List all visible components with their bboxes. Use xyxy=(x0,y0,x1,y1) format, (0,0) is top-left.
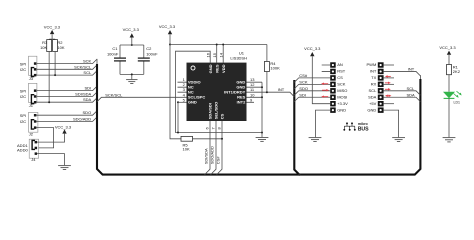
power flag VCC_3.3 left header xyxy=(304,46,321,56)
wire RX stub xyxy=(384,82,394,85)
resistor R5 xyxy=(181,136,223,151)
svg-text:CS: CS xyxy=(220,113,225,119)
svg-text:SDI/SDA: SDI/SDA xyxy=(75,91,91,96)
wire SCL to bus xyxy=(384,86,421,95)
svg-text:SDI: SDI xyxy=(85,86,92,91)
svg-text:VCC_3.3: VCC_3.3 xyxy=(123,27,140,32)
jumper J3 SPI/I2C xyxy=(20,56,37,81)
svg-text:SDO: SDO xyxy=(83,110,92,115)
wire J4 bottom to GND xyxy=(37,154,64,166)
svg-text:10K: 10K xyxy=(57,45,64,50)
jumper J2 SPI/I2C xyxy=(20,112,38,136)
svg-text:2K2: 2K2 xyxy=(453,69,461,74)
svg-text:AN: AN xyxy=(337,62,343,67)
resistor R3 xyxy=(40,40,52,52)
wire SDA xyxy=(37,97,97,103)
svg-text:mikro: mikro xyxy=(358,122,369,126)
svg-text:SPI: SPI xyxy=(20,89,26,94)
wire +3.3V xyxy=(312,56,330,103)
resistor R4 xyxy=(264,45,280,93)
wire INT from IC xyxy=(247,87,295,97)
power flag VCC_3.3 VDD rail xyxy=(159,24,176,45)
svg-text:SCK/SCL: SCK/SCL xyxy=(74,64,92,69)
jumper J1 SPI/I2C xyxy=(20,83,37,108)
wire SCK xyxy=(37,59,97,64)
bus main xyxy=(97,64,420,175)
svg-text:SPI: SPI xyxy=(20,113,26,118)
wire caps rails xyxy=(120,45,144,79)
svg-text:GND: GND xyxy=(367,107,376,112)
svg-text:SCL: SCL xyxy=(83,70,92,75)
svg-text:I2C: I2C xyxy=(20,67,26,72)
svg-text:16: 16 xyxy=(206,52,211,57)
svg-text:I2C: I2C xyxy=(20,119,26,124)
svg-text:SDA: SDA xyxy=(368,94,377,99)
wire TX stub xyxy=(384,75,394,78)
svg-text:VCC_3.3: VCC_3.3 xyxy=(55,124,72,129)
wire CS# xyxy=(294,73,330,82)
ground LED xyxy=(443,138,456,142)
svg-text:10K: 10K xyxy=(40,45,47,50)
ground J4 xyxy=(58,166,71,170)
wire SCK/SCL xyxy=(37,64,97,69)
svg-text:SDA/SDI: SDA/SDI xyxy=(208,103,213,119)
left pin stubs 1-5 xyxy=(178,82,187,92)
svg-text:PWM: PWM xyxy=(367,62,377,67)
wire SDA to bus xyxy=(384,92,421,101)
wire VDD to R5 xyxy=(170,45,181,139)
wire SDI/SDA xyxy=(37,91,97,96)
ground IC xyxy=(256,132,269,142)
body xyxy=(187,63,247,121)
wire left header GND xyxy=(316,110,331,137)
wire R2 to SCL xyxy=(54,52,56,76)
wire VDD rail xyxy=(170,45,267,63)
svg-text:14: 14 xyxy=(219,52,224,57)
svg-text:BUS: BUS xyxy=(358,127,369,133)
svg-text:VCC_3.3: VCC_3.3 xyxy=(44,24,61,29)
svg-text:+5V: +5V xyxy=(369,101,377,106)
svg-text:CS: CS xyxy=(337,75,343,80)
svg-text:SPI: SPI xyxy=(20,61,26,66)
power flag VCC_3.3 pull-ups xyxy=(44,24,61,39)
wire SCL xyxy=(37,70,97,76)
svg-text:SDO/ADD: SDO/ADD xyxy=(73,116,91,121)
svg-text:GND: GND xyxy=(208,64,213,73)
svg-text:100nF: 100nF xyxy=(146,51,158,56)
svg-text:SCK: SCK xyxy=(337,82,346,87)
svg-text:SCL: SCL xyxy=(369,88,378,93)
svg-text:SDA: SDA xyxy=(83,97,92,102)
svg-text:VCC_3.3: VCC_3.3 xyxy=(159,24,176,29)
svg-text:SCK: SCK xyxy=(299,80,308,85)
wire SCK/SCL to IC xyxy=(97,92,187,101)
svg-text:SEL/SDO: SEL/SDO xyxy=(214,102,219,120)
wire right header GND xyxy=(384,110,399,137)
svg-text:VCC_3.3: VCC_3.3 xyxy=(304,46,321,51)
svg-text:SDO: SDO xyxy=(299,86,308,91)
power flag VCC_3.3 J4 xyxy=(55,124,72,133)
bottom pin stubs 6-8 xyxy=(205,121,222,175)
svg-text:MISO: MISO xyxy=(337,88,347,93)
svg-text:RX: RX xyxy=(371,82,377,87)
connector CN1 mikroBUS left xyxy=(330,62,348,113)
svg-text:SCK/SCL: SCK/SCL xyxy=(105,92,123,97)
ic U1 LIS3DSH xyxy=(178,50,264,174)
svg-text:I2C: I2C xyxy=(20,94,26,99)
svg-text:TX: TX xyxy=(371,75,376,80)
wire INT to bus xyxy=(384,67,421,76)
logo mikroBUS xyxy=(343,122,369,133)
ground right header xyxy=(392,138,405,142)
wire SDI xyxy=(37,86,97,91)
wire AN RST stubs xyxy=(322,65,331,71)
svg-text:INT2: INT2 xyxy=(237,100,246,105)
resistor R2 xyxy=(53,40,65,52)
svg-text:MOSI: MOSI xyxy=(337,94,347,99)
wire SDO xyxy=(36,110,97,115)
wire SCK to header xyxy=(294,80,330,89)
capacitor C1 xyxy=(107,45,126,74)
wire PWM stub xyxy=(384,64,394,66)
led LD1 xyxy=(443,91,462,137)
svg-text:INT: INT xyxy=(278,87,285,92)
svg-text:CS#: CS# xyxy=(215,156,220,165)
svg-text:GND: GND xyxy=(188,100,197,105)
wire SDI to header xyxy=(294,92,330,101)
resistor R1 xyxy=(447,64,461,91)
wire GND rail pin16 xyxy=(176,51,263,132)
svg-text:+3.3V: +3.3V xyxy=(337,101,348,106)
svg-text:INT: INT xyxy=(370,69,377,74)
ground left header xyxy=(309,138,322,142)
wire SDO to header xyxy=(294,86,330,95)
wire J4 top to VCC xyxy=(37,134,64,143)
svg-text:VCC_3.3: VCC_3.3 xyxy=(439,45,456,50)
wire SDO/ADD xyxy=(36,116,97,121)
capacitor C2 xyxy=(138,45,158,74)
svg-text:SCK: SCK xyxy=(83,59,92,64)
svg-text:SDO/ADD: SDO/ADD xyxy=(209,146,214,164)
svg-text:ADD0: ADD0 xyxy=(17,148,28,153)
svg-text:SCL: SCL xyxy=(407,86,416,91)
ground caps xyxy=(126,80,137,84)
svg-text:INT: INT xyxy=(408,67,415,72)
svg-text:GND: GND xyxy=(337,107,346,112)
svg-text:CS#: CS# xyxy=(299,73,308,78)
svg-text:LIS3DSH: LIS3DSH xyxy=(230,55,247,60)
svg-text:SDI/SDA: SDI/SDA xyxy=(203,148,208,164)
connector CN2 mikroBUS right xyxy=(367,62,384,113)
wire J2 to J4 ADD xyxy=(36,128,53,148)
jumper J4 ADD1/ADD0 xyxy=(17,139,39,162)
svg-text:10K: 10K xyxy=(183,147,190,152)
bus branch SPI breakout xyxy=(294,80,299,175)
power flag VCC_3.3 LED xyxy=(439,45,456,64)
svg-text:15: 15 xyxy=(212,52,217,57)
svg-text:VDD: VDD xyxy=(221,64,226,73)
svg-text:SDI: SDI xyxy=(299,92,306,97)
right pin stubs 13-9 xyxy=(247,82,263,102)
svg-text:100K: 100K xyxy=(270,66,280,71)
wire +5V stub xyxy=(384,103,394,105)
svg-text:100nF: 100nF xyxy=(107,51,119,56)
svg-text:LD1: LD1 xyxy=(454,101,460,105)
wire pin5 GND drop xyxy=(177,102,179,132)
power flag VCC_3.3 caps xyxy=(123,27,140,46)
svg-text:RES: RES xyxy=(215,64,220,73)
svg-text:RST: RST xyxy=(337,69,346,74)
svg-text:SDA: SDA xyxy=(407,92,416,97)
wire R3 to SDA xyxy=(48,52,50,103)
